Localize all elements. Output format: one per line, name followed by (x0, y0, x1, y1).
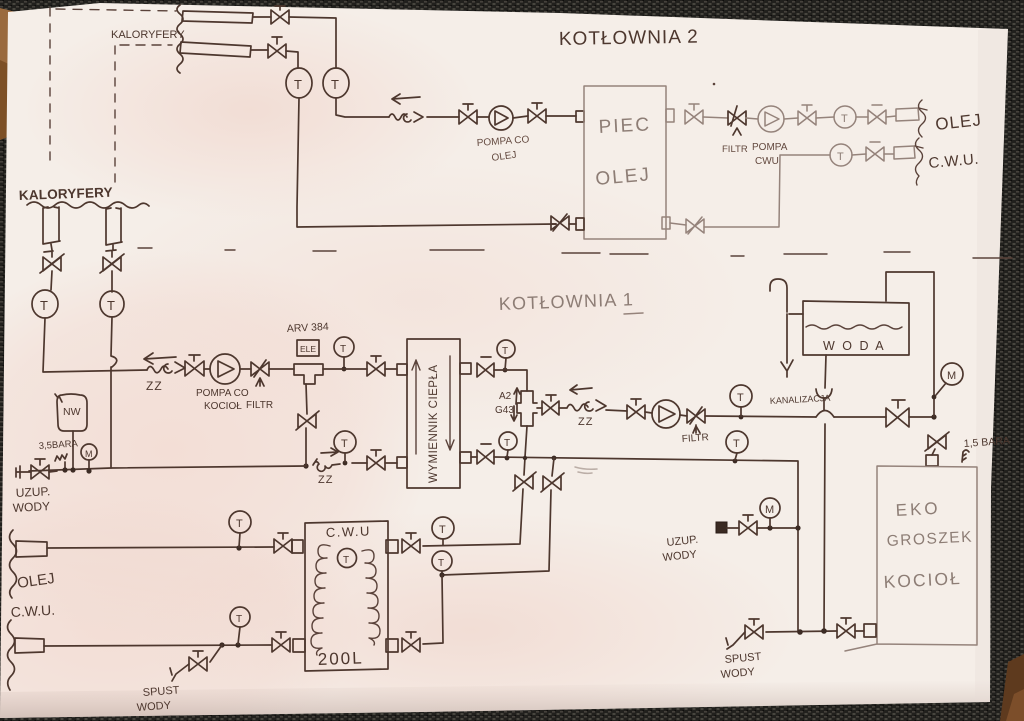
wire therm stem (735, 453, 737, 460)
svg-text:POMPA: POMPA (752, 142, 788, 153)
valve tank bottom left (272, 632, 290, 652)
flow arrow right (return) (321, 448, 338, 456)
connector tank top left (292, 540, 303, 553)
svg-text:ZZ: ZZ (578, 416, 593, 428)
valve before oil flex (868, 105, 886, 124)
wire therm stem (238, 627, 240, 644)
pump POMPA CO KOCIOL (210, 354, 240, 384)
overflow outlet arrow Y (781, 314, 793, 377)
valve K1 before pump (185, 355, 204, 376)
flow arrow left (K1 supply) (144, 353, 176, 364)
wire (427, 116, 459, 118)
valve tank inlet top (274, 533, 292, 553)
hop over drain pipe (816, 411, 834, 418)
wire (932, 449, 935, 455)
wire (204, 368, 210, 370)
valve piec bottom left (551, 214, 569, 231)
tank WODA (803, 301, 909, 355)
wire therm stem (740, 407, 742, 416)
svg-text:KOTŁOWNIA 2: KOTŁOWNIA 2 (559, 27, 699, 50)
node (505, 456, 510, 461)
wire boiler bottom line (766, 631, 837, 632)
wire therm stem (344, 453, 346, 462)
ink dot (713, 83, 716, 86)
wire riser to mixing tee (305, 428, 307, 466)
wire (289, 17, 336, 68)
node (733, 459, 738, 464)
node (821, 628, 827, 634)
filter valve FILTR (K1) (251, 360, 269, 386)
svg-text:T: T (107, 298, 115, 313)
valve exchanger outlet (dark) (477, 357, 494, 377)
valve UZUP left (31, 459, 49, 479)
wire OLEJ supply line (47, 547, 274, 548)
boiler EKO GROSZEK KOCIOL box (845, 466, 977, 651)
valve K2 upper radiator (271, 6, 289, 24)
connector exchanger bottom right (460, 452, 471, 463)
wire (513, 116, 528, 118)
wire return right section (471, 456, 477, 458)
radiator K2 lower (180, 42, 251, 57)
svg-text:T: T (439, 524, 446, 536)
gauge M boiler (941, 363, 963, 385)
svg-text:FILTR: FILTR (246, 400, 273, 411)
node (552, 456, 557, 461)
thermometer boiler supply (730, 385, 752, 407)
connector boiler top (926, 455, 938, 466)
flow arrow left (K2 oil line) (392, 94, 420, 104)
valve UZUP middle (739, 515, 757, 535)
wire (253, 16, 271, 18)
svg-text:T: T (837, 151, 844, 163)
check valve Om (return) (313, 459, 340, 471)
wire (670, 223, 686, 225)
valve before CWU flex (866, 142, 884, 161)
radiator K1 left (43, 207, 60, 244)
tank CWU box (305, 521, 388, 671)
wire CWU cold line (44, 645, 272, 646)
svg-text:ZZ: ZZ (146, 379, 163, 393)
svg-text:T: T (343, 555, 349, 566)
wire (855, 630, 864, 632)
svg-text:ZZ: ZZ (318, 474, 333, 486)
wire (343, 357, 345, 369)
svg-text:CWU: CWU (755, 156, 779, 167)
svg-text:T: T (841, 113, 848, 125)
underline of 1 (624, 313, 643, 314)
wire spust boiler tail (726, 632, 745, 649)
squiggle underline (27, 202, 149, 208)
wire (477, 116, 489, 118)
svg-text:PIEC: PIEC (598, 114, 651, 138)
wire cwu supply riser (524, 426, 527, 475)
wall dashed line inner horizontal (120, 44, 172, 46)
node gauge tap (932, 395, 937, 400)
coil left in tank (311, 545, 330, 655)
wooden floor strip left edge (0, 8, 16, 140)
thermometer tank hot 1 (432, 517, 454, 539)
svg-text:T: T (341, 438, 348, 450)
connector piec left (576, 111, 584, 122)
svg-text:M: M (765, 504, 774, 516)
svg-text:EKO: EKO (895, 499, 941, 520)
node (62, 467, 67, 472)
wire gauge stem (936, 383, 946, 395)
connector piec bottom left (576, 218, 584, 230)
node therm boiler supply (739, 415, 744, 420)
wire (251, 49, 268, 51)
node (523, 456, 527, 460)
node (797, 629, 803, 635)
wire therm stem (442, 539, 444, 545)
wire (909, 416, 934, 418)
wire gauge stem (769, 518, 771, 527)
wall dashed line vertical inner (114, 46, 116, 186)
valve mixing bypass (slash) (296, 411, 319, 430)
svg-text:WODY: WODY (136, 700, 172, 714)
wire (494, 358, 527, 391)
thermometer return right (499, 432, 517, 450)
vessel NW (55, 394, 87, 431)
wire (546, 115, 576, 117)
wire (306, 384, 307, 414)
svg-text:M: M (85, 449, 93, 459)
wire supply from left radiator (43, 318, 147, 372)
paper bottom edge shadow (0, 680, 990, 718)
flow arrow left (boiler supply) (570, 385, 592, 394)
connector boiler bottom left (864, 624, 876, 637)
wire CWU return loop (704, 155, 830, 227)
wire (703, 117, 728, 118)
check valve WO (K2 oil line) (389, 112, 423, 122)
node (503, 368, 508, 373)
svg-text:C.W.U: C.W.U (326, 523, 372, 540)
svg-text:UZUP.: UZUP. (15, 484, 50, 500)
wall dashed line vertical left (49, 8, 51, 168)
thermometer exchanger outlet (497, 340, 515, 358)
valve exchanger return (dark) (477, 444, 494, 464)
wire woda fill pipe (886, 272, 934, 416)
node supply-therm (342, 367, 347, 372)
wire (856, 116, 868, 118)
svg-text:C.W.U.: C.W.U. (10, 602, 55, 620)
node (86, 468, 91, 473)
connector tank top right (386, 540, 398, 553)
svg-text:T: T (40, 298, 48, 313)
wire (757, 527, 798, 529)
wire (111, 271, 113, 292)
node (219, 642, 224, 647)
wire (852, 154, 866, 155)
thermometer CWU line (830, 144, 852, 166)
wire (680, 415, 687, 416)
svg-text:FILTR: FILTR (681, 432, 709, 445)
connector tank bottom right (386, 639, 398, 652)
svg-text:W O D A: W O D A (823, 339, 886, 353)
wire spust tail (170, 664, 189, 681)
gauge M left (81, 444, 97, 460)
thermometer above supply (334, 337, 354, 357)
pump POMPA CWU (758, 106, 784, 132)
svg-text:KOCIOŁ: KOCIOŁ (883, 568, 962, 592)
fill point square UZUP middle (716, 522, 727, 533)
node (70, 467, 75, 472)
svg-text:FILTR: FILTR (722, 144, 748, 155)
thermometer K1 left (32, 290, 58, 318)
connector CWU line (15, 638, 44, 653)
valve return before exchanger (367, 450, 385, 470)
water level squiggle (806, 325, 902, 329)
wire kanalizacja drain down (824, 398, 825, 632)
connector exchanger top right (460, 363, 471, 374)
tee fitting ARV mixing valve (294, 364, 323, 384)
filter valve FILTR (K2) (728, 106, 746, 135)
radiator K2 upper (182, 11, 253, 23)
svg-text:T: T (236, 614, 242, 625)
wire (442, 490, 551, 575)
thermometer tank (338, 549, 357, 568)
wire return from right radiator with hop (111, 317, 117, 468)
box ELE (297, 340, 319, 356)
pencil smudge (575, 467, 597, 473)
wire (705, 416, 816, 417)
wire therm stem (507, 450, 508, 457)
thermometer tank hot 2 (432, 551, 452, 571)
thermometer cwu line (230, 607, 250, 627)
svg-text:T: T (294, 77, 302, 92)
valve after A2 fitting (542, 395, 559, 415)
svg-text:T: T (737, 392, 744, 404)
drain funnel cup (816, 389, 832, 398)
tap symbol UZUP (16, 466, 31, 478)
wire therm stem (441, 571, 443, 575)
divider dashes between sections (138, 248, 1012, 258)
valve cwu supply (slash) (513, 472, 536, 491)
valve K1 supply before exchanger (367, 356, 385, 376)
wire return long left (29, 466, 306, 471)
valve before boiler pump (627, 399, 645, 419)
wire supply down to oil line (336, 98, 389, 117)
thermometer T1 (286, 68, 312, 98)
connector piec right lower (662, 217, 670, 229)
wire (606, 410, 627, 411)
thermometer cwu cold (229, 511, 251, 533)
svg-text:T: T (236, 518, 243, 530)
wire woda tank drain (825, 355, 826, 388)
wire vessel stem (72, 431, 74, 468)
tee fitting A2 G43 (517, 391, 537, 426)
connector oil flex (886, 108, 919, 121)
wire (286, 51, 298, 68)
svg-text:WYMIENNIK CIEPŁA: WYMIENNIK CIEPŁA (428, 364, 440, 483)
valve cwu return (slash) (541, 473, 564, 492)
heat exchanger WYMIENNIK CIEPLA box (407, 339, 460, 488)
wire (645, 412, 652, 413)
valve spust left (189, 651, 207, 671)
svg-text:KOCIOŁ: KOCIOŁ (204, 401, 242, 412)
check valve WO (boiler supply) (559, 400, 606, 411)
wire tank bottom circuit (423, 575, 443, 644)
wire (49, 471, 57, 472)
node return therm (343, 461, 348, 466)
valve boiler top (slash) (925, 432, 949, 451)
svg-text:T: T (438, 558, 444, 569)
wire (834, 416, 886, 418)
node (439, 572, 444, 577)
svg-text:ARV 384: ARV 384 (287, 321, 330, 335)
svg-text:ELE: ELE (300, 344, 316, 354)
wire (51, 271, 52, 290)
valve K1 radiator left (40, 254, 64, 273)
wall dashed line top (56, 9, 176, 11)
valve tank outlet top right (402, 533, 420, 553)
connector CWU flex (884, 146, 915, 159)
wire (269, 368, 294, 370)
wire (44, 244, 53, 257)
thermometer K1 right (100, 291, 124, 317)
valve boiler drain (837, 618, 855, 638)
wire (784, 118, 798, 119)
gauge M middle (760, 498, 780, 518)
svg-text:M: M (947, 370, 956, 382)
radiator squiggle brace top (177, 5, 183, 73)
svg-text:T: T (504, 438, 510, 449)
thermometer return far right (726, 431, 748, 453)
check valve WO (K1 supply) (147, 362, 185, 373)
wooden floor bottom-right corner (1000, 654, 1024, 721)
pump POMPA CO OLEJ (489, 106, 513, 130)
wire (423, 489, 523, 546)
node (795, 525, 800, 530)
paper pink blush areas (0, 250, 430, 650)
valve spust boiler (745, 619, 763, 639)
wire (727, 527, 739, 529)
wire (816, 117, 834, 118)
connector tank bottom left (293, 639, 305, 652)
connector exchanger top left (397, 364, 407, 375)
wire return to boiler (494, 457, 798, 632)
svg-text:KALORYFERY: KALORYFERY (111, 29, 185, 41)
radiator K1 right (106, 208, 122, 245)
wire (240, 368, 251, 370)
flex inlet squiggle CWU line (8, 620, 15, 690)
wire cwu return riser (552, 458, 554, 476)
coil right in tank (362, 550, 380, 645)
connector OLEJ line (16, 541, 47, 557)
thermometer oil line right (834, 106, 856, 128)
wire return long left down (297, 98, 556, 227)
node return junction (303, 463, 308, 468)
flex hose squiggle OLEJ (919, 100, 928, 137)
thermometer return (334, 431, 356, 453)
svg-text:T: T (340, 344, 346, 355)
filter valve FILTR (boiler) (687, 407, 705, 433)
relief squiggle (55, 454, 67, 468)
node (236, 545, 241, 550)
connector piec top right (666, 109, 674, 122)
wire (323, 368, 367, 370)
overflow hook pipe (770, 279, 803, 314)
svg-text:T: T (502, 346, 508, 357)
wire fitting to valve (537, 407, 542, 409)
node (767, 525, 772, 530)
node boiler supply (931, 414, 936, 419)
valve piec outlet (pencil) (685, 104, 703, 124)
arrow down inside exchanger (446, 356, 454, 450)
svg-text:NW: NW (63, 406, 81, 418)
valve K1 radiator right (100, 254, 124, 273)
svg-text:T: T (733, 438, 740, 450)
wire (106, 245, 116, 257)
valve piec CWU return (pencil) (686, 217, 704, 234)
svg-text:A2: A2 (499, 391, 512, 402)
valve before boiler (big) (886, 400, 909, 427)
wire gauge stem (88, 460, 90, 470)
svg-text:POMPA CO: POMPA CO (196, 388, 249, 399)
boiler PIEC OLEJ box (584, 86, 666, 239)
flex hose squiggle CWU (915, 138, 923, 185)
wire (352, 462, 397, 464)
wire (551, 223, 576, 225)
wire (385, 368, 397, 370)
arrow up inside exchanger (412, 360, 420, 454)
pump boiler circuit (652, 400, 680, 428)
svg-text:T: T (331, 77, 339, 92)
wire therm stem (239, 533, 240, 547)
node (235, 642, 240, 647)
valve K2 before pump (459, 104, 477, 124)
valve K2 lower radiator (268, 37, 286, 58)
valve K2 piec inlet (528, 103, 546, 123)
wire spust branch left (210, 645, 222, 662)
valve K2 oil line right (798, 105, 816, 125)
flex inlet squiggle OLEJ line (10, 530, 17, 598)
valve tank bottom right (402, 632, 420, 652)
svg-text:200L: 200L (317, 648, 363, 669)
wire (746, 118, 758, 119)
thermometer T2 (323, 68, 349, 98)
svg-text:WODY: WODY (12, 499, 50, 515)
return line from exchanger: connector bottom left (397, 457, 407, 468)
relief tick symbol (962, 450, 969, 462)
